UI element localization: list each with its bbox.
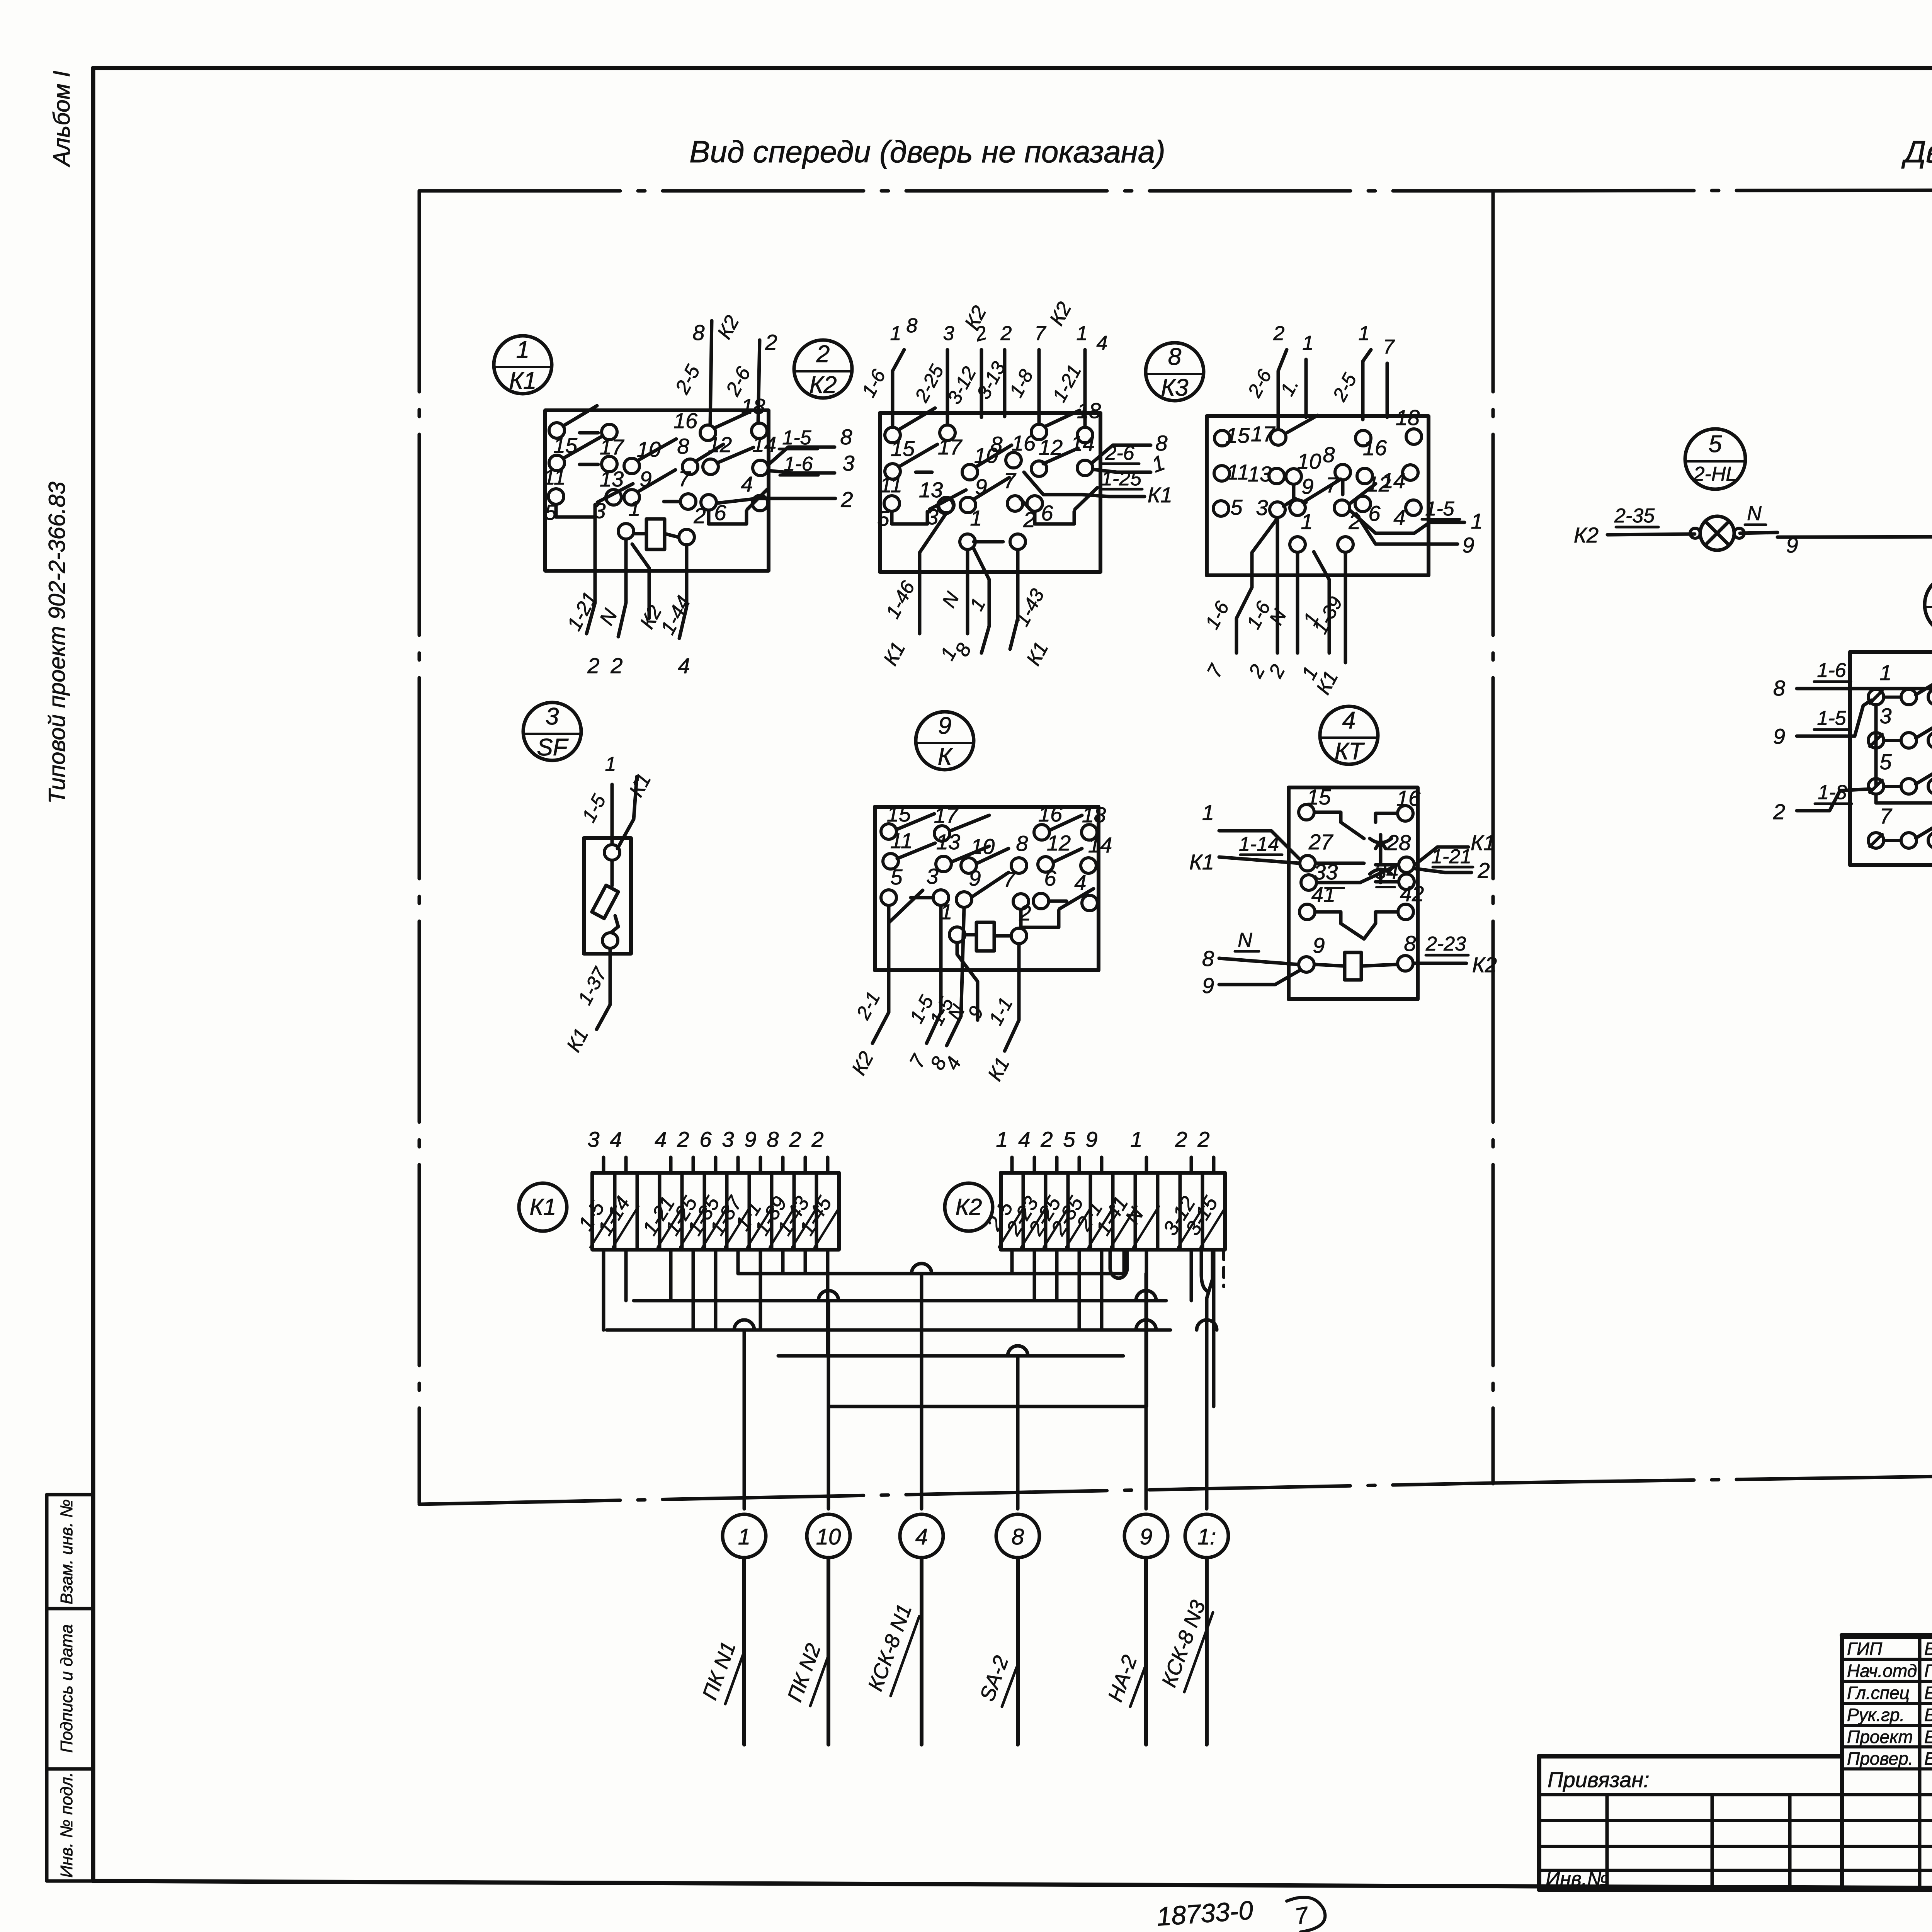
svg-text:4: 4	[610, 1127, 622, 1151]
svg-text:3: 3	[722, 1127, 734, 1151]
svg-text:2: 2	[1040, 1127, 1053, 1151]
svg-text:1: 1	[1202, 800, 1214, 825]
svg-text:16: 16	[673, 408, 698, 433]
svg-text:4: 4	[678, 653, 690, 678]
svg-text:17: 17	[934, 803, 959, 827]
svg-text:1: 1	[1359, 322, 1370, 345]
svg-text:2: 2	[816, 341, 830, 367]
svg-text:9: 9	[1140, 1524, 1152, 1549]
svg-text:5: 5	[1063, 1127, 1075, 1151]
svg-text:3: 3	[546, 703, 559, 730]
svg-text:1: 1	[1077, 322, 1088, 345]
svg-text:К3: К3	[1161, 374, 1188, 401]
svg-text:2: 2	[789, 1127, 801, 1151]
svg-text:8: 8	[692, 320, 704, 345]
svg-text:15: 15	[887, 802, 911, 826]
svg-text:К1: К1	[530, 1194, 556, 1220]
svg-text:9: 9	[1462, 533, 1474, 557]
svg-text:Воронцна: Воронцна	[1924, 1705, 1932, 1725]
svg-text:13: 13	[936, 830, 960, 854]
svg-text:1-5: 1-5	[1817, 707, 1846, 730]
svg-text:КТ: КТ	[1335, 738, 1365, 765]
svg-text:Альбом I: Альбом I	[49, 71, 75, 167]
svg-text:3: 3	[926, 864, 938, 888]
svg-text:11: 11	[880, 473, 902, 497]
svg-text:8: 8	[1016, 831, 1028, 855]
svg-text:8: 8	[1323, 442, 1335, 467]
svg-text:41: 41	[1311, 882, 1335, 906]
svg-text:14: 14	[1071, 431, 1095, 456]
svg-text:5: 5	[890, 865, 903, 889]
svg-text:28: 28	[1386, 830, 1411, 855]
svg-text:2: 2	[1773, 799, 1785, 824]
svg-text:К1: К1	[1148, 483, 1172, 507]
svg-text:8: 8	[1404, 931, 1416, 956]
svg-text:9: 9	[938, 713, 951, 739]
svg-text:К2: К2	[956, 1194, 982, 1220]
svg-text:2-23: 2-23	[1425, 933, 1466, 955]
svg-text:3: 3	[842, 451, 854, 475]
svg-text:Дверь (вид с монтажной сторо: Дверь (вид с монтажной стороны)	[1901, 134, 1932, 169]
svg-text:4: 4	[1074, 870, 1086, 895]
svg-text:15: 15	[891, 436, 915, 461]
svg-text:4: 4	[1393, 505, 1405, 529]
svg-text:К2: К2	[809, 372, 837, 398]
svg-text:Вид спереди (дверь не пок: Вид спереди (дверь не показана)	[689, 134, 1165, 169]
svg-text:4: 4	[741, 472, 753, 496]
svg-text:8: 8	[1168, 344, 1182, 370]
svg-text:2: 2	[1175, 1127, 1187, 1151]
svg-text:1: 1	[1303, 332, 1314, 354]
svg-text:7: 7	[1003, 867, 1016, 891]
svg-text:1-6: 1-6	[1817, 659, 1846, 682]
svg-text:18: 18	[1082, 803, 1106, 827]
svg-text:10: 10	[816, 1524, 841, 1549]
svg-text:2: 2	[610, 653, 622, 678]
svg-text:15: 15	[1226, 423, 1250, 447]
svg-text:2-HL: 2-HL	[1693, 463, 1737, 485]
svg-text:11: 11	[543, 465, 566, 489]
svg-text:1: 1	[605, 753, 616, 776]
svg-text:4: 4	[915, 1524, 928, 1549]
svg-text:13: 13	[600, 467, 624, 491]
svg-text:К2: К2	[1472, 952, 1497, 977]
svg-text:2: 2	[1197, 1127, 1209, 1151]
svg-text:К: К	[938, 743, 953, 770]
svg-text:14: 14	[1088, 833, 1112, 857]
svg-text:17: 17	[938, 435, 963, 459]
svg-text:1: 1	[1471, 509, 1483, 533]
svg-text:2: 2	[765, 330, 777, 354]
svg-text:7: 7	[1879, 804, 1892, 828]
svg-text:3: 3	[587, 1127, 599, 1151]
svg-text:17: 17	[1251, 422, 1276, 446]
svg-text:К1: К1	[1471, 830, 1495, 855]
svg-text:15: 15	[1307, 785, 1331, 809]
svg-text:6: 6	[699, 1127, 712, 1151]
svg-text:27: 27	[1308, 830, 1333, 854]
svg-text:К1: К1	[509, 367, 536, 394]
svg-text:Барсуков: Барсуков	[1924, 1639, 1932, 1659]
svg-text:13: 13	[1248, 462, 1272, 486]
svg-text:Типовой проект 902-2-366.83: Типовой проект 902-2-366.83	[44, 481, 70, 804]
svg-text:10: 10	[1297, 449, 1321, 473]
svg-text:8: 8	[906, 315, 918, 337]
svg-text:9: 9	[1773, 724, 1785, 748]
svg-text:Пупков: Пупков	[1924, 1661, 1932, 1681]
svg-text:1-14: 1-14	[1239, 833, 1279, 855]
svg-text:6: 6	[1044, 866, 1056, 890]
svg-text:6: 6	[1368, 501, 1381, 526]
svg-text:9: 9	[1202, 973, 1214, 998]
svg-text:13: 13	[919, 478, 943, 502]
svg-text:3: 3	[1879, 704, 1891, 728]
svg-text:N: N	[1238, 929, 1252, 951]
svg-text:8: 8	[1202, 946, 1214, 971]
svg-text:1: 1	[628, 496, 640, 520]
svg-text:1-5: 1-5	[782, 427, 811, 449]
svg-text:1-8: 1-8	[1818, 781, 1847, 804]
svg-text:18: 18	[1396, 405, 1420, 430]
svg-text:9: 9	[1313, 933, 1325, 957]
svg-text:Воронина: Воронина	[1924, 1748, 1932, 1769]
svg-text:1: 1	[970, 506, 982, 530]
svg-text:1: 1	[1301, 509, 1313, 534]
svg-text:3: 3	[1256, 495, 1268, 520]
svg-text:Подпись и дата: Подпись и дата	[57, 1624, 76, 1753]
svg-text:Провер.: Провер.	[1847, 1748, 1913, 1769]
svg-text:Гл.спец: Гл.спец	[1847, 1683, 1910, 1703]
svg-text:N: N	[1747, 502, 1762, 525]
svg-text:2: 2	[1477, 858, 1490, 883]
svg-text:5: 5	[1709, 431, 1722, 457]
svg-text:14: 14	[752, 432, 776, 456]
svg-text:4: 4	[1097, 332, 1108, 354]
svg-text:7: 7	[1035, 322, 1047, 345]
svg-text:1:: 1:	[1197, 1524, 1216, 1549]
svg-text:1-21: 1-21	[1431, 845, 1471, 868]
svg-text:5: 5	[877, 506, 889, 531]
svg-text:11: 11	[1227, 460, 1249, 484]
svg-text:1: 1	[996, 1127, 1008, 1151]
svg-text:16: 16	[1038, 802, 1063, 826]
svg-text:К2: К2	[1574, 523, 1599, 547]
svg-text:Емельянова: Емельянова	[1924, 1727, 1932, 1747]
svg-text:ГИП: ГИП	[1847, 1639, 1883, 1659]
svg-text:16: 16	[1363, 435, 1387, 460]
svg-text:3: 3	[943, 322, 954, 345]
svg-text:9: 9	[1301, 474, 1313, 498]
svg-text:4: 4	[1342, 707, 1355, 734]
svg-text:8: 8	[1773, 676, 1785, 700]
svg-text:1: 1	[890, 322, 901, 345]
svg-text:2-6: 2-6	[1105, 442, 1134, 464]
svg-text:SF: SF	[537, 734, 568, 761]
svg-text:9: 9	[1085, 1127, 1097, 1151]
svg-text:Инв.№: Инв.№	[1546, 1868, 1609, 1890]
svg-text:7: 7	[678, 466, 691, 491]
svg-text:2: 2	[1273, 322, 1285, 345]
svg-text:8: 8	[767, 1127, 779, 1151]
svg-text:2: 2	[811, 1127, 823, 1151]
svg-text:8: 8	[677, 434, 689, 458]
svg-text:1-25: 1-25	[1101, 468, 1142, 490]
svg-text:2: 2	[677, 1127, 689, 1151]
svg-text:9: 9	[744, 1127, 756, 1151]
svg-text:8: 8	[840, 425, 852, 449]
svg-text:5: 5	[1230, 495, 1243, 519]
svg-text:1: 1	[738, 1524, 750, 1549]
svg-text:2: 2	[840, 487, 853, 512]
svg-text:7: 7	[1383, 336, 1395, 358]
svg-text:2: 2	[1000, 322, 1012, 345]
svg-text:9: 9	[969, 866, 981, 890]
svg-text:5: 5	[1879, 750, 1892, 774]
svg-text:Инв. № подл.: Инв. № подл.	[57, 1772, 76, 1878]
svg-text:14: 14	[1381, 468, 1405, 493]
svg-text:11: 11	[890, 828, 913, 853]
svg-text:2: 2	[587, 653, 599, 678]
svg-text:12: 12	[1047, 831, 1071, 855]
svg-text:6: 6	[1041, 501, 1053, 525]
svg-text:4: 4	[655, 1127, 667, 1151]
svg-text:Нач.отд: Нач.отд	[1847, 1661, 1917, 1681]
svg-text:2-35: 2-35	[1614, 505, 1655, 527]
svg-text:16: 16	[1396, 786, 1421, 810]
svg-text:1-5: 1-5	[1425, 498, 1454, 520]
svg-text:К1: К1	[1189, 850, 1214, 874]
svg-text:Привязан:: Привязан:	[1548, 1767, 1650, 1792]
svg-text:4: 4	[1018, 1127, 1030, 1151]
svg-text:1: 1	[516, 337, 529, 363]
svg-text:Проект: Проект	[1847, 1727, 1913, 1747]
svg-text:Взам. инв. №: Взам. инв. №	[57, 1499, 76, 1604]
svg-text:Рук.гр.: Рук.гр.	[1847, 1705, 1905, 1725]
svg-text:1: 1	[1879, 660, 1891, 685]
svg-text:1-6: 1-6	[784, 453, 813, 475]
svg-text:42: 42	[1400, 881, 1424, 906]
svg-text:1: 1	[1130, 1127, 1142, 1151]
svg-text:Елагина: Елагина	[1924, 1683, 1932, 1703]
svg-text:2: 2	[693, 503, 706, 528]
svg-text:8: 8	[1012, 1524, 1024, 1549]
